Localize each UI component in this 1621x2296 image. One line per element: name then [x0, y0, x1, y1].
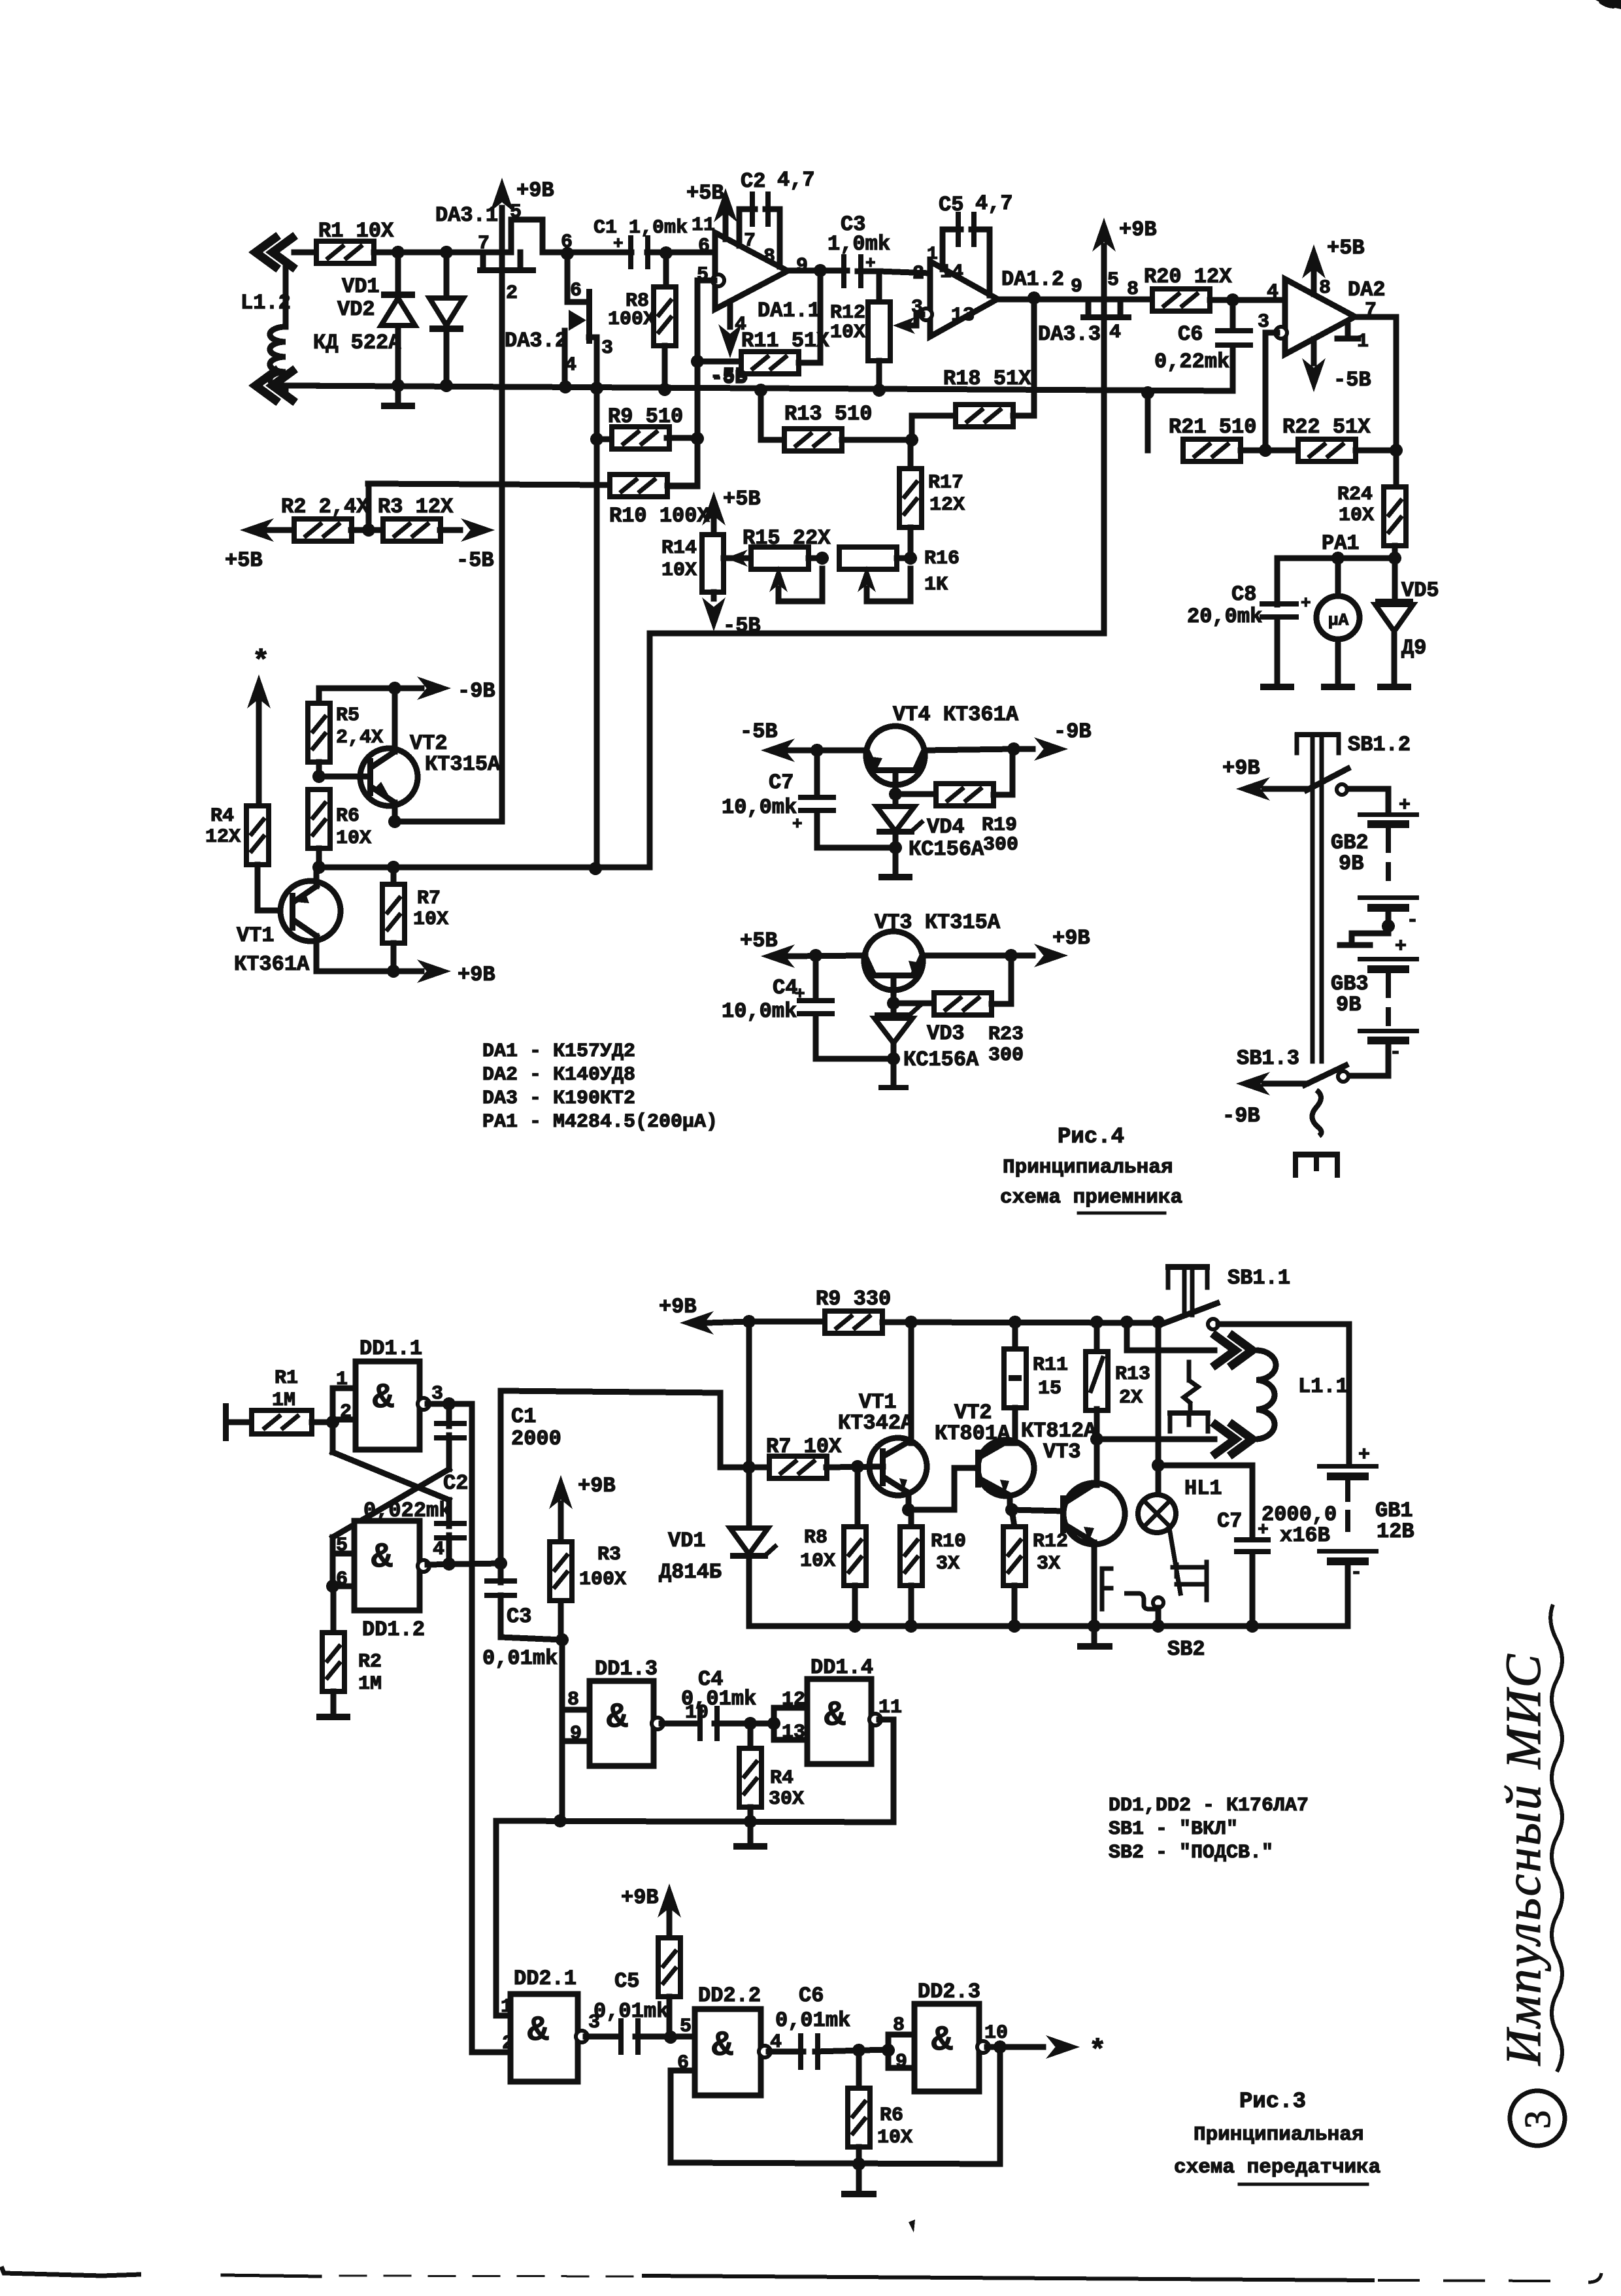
pin 11 +5B arrow (DA1.1) — [686, 181, 737, 239]
svg-text:11: 11 — [878, 1697, 902, 1719]
pin 13 (DA1.2) — [951, 305, 975, 327]
svg-text:R1: R1 — [275, 1367, 298, 1389]
svg-text:+5B: +5B — [740, 929, 778, 953]
label R6 10K — [336, 805, 371, 850]
svg-text:VT3: VT3 — [1043, 1440, 1081, 1464]
pin 7 (DA1.1) — [744, 230, 756, 252]
svg-text:9: 9 — [1071, 276, 1082, 298]
NAND gate DD1.3 — [590, 1681, 654, 1766]
svg-text:1M: 1M — [358, 1673, 382, 1695]
label R22 51K — [1282, 415, 1371, 439]
resistor R10 (receiver) — [368, 474, 697, 497]
wire DD1.2 input bracket — [326, 1537, 354, 1593]
svg-text:12B: 12B — [1377, 1520, 1414, 1544]
label R3 12K — [378, 495, 454, 519]
label L1.1 — [1298, 1374, 1348, 1399]
svg-text:+9B: +9B — [1052, 926, 1090, 950]
label VD3 KC156A — [903, 1022, 979, 1072]
label C8 20,0mk — [1187, 582, 1311, 629]
transistor VT1 (receiver) — [280, 867, 341, 971]
svg-text:3: 3 — [431, 1383, 443, 1405]
capacitor C1 (receiver) — [567, 235, 715, 269]
svg-text:300: 300 — [983, 834, 1018, 856]
pin 2 (DD2.1) — [502, 2033, 514, 2055]
ground (VD1) — [381, 386, 415, 409]
svg-text:C1: C1 — [511, 1405, 536, 1429]
svg-text:схема передатчика: схема передатчика — [1174, 2156, 1380, 2179]
svg-text:4: 4 — [433, 1539, 444, 1561]
svg-text:1K: 1K — [924, 574, 948, 596]
label SB1.2 — [1348, 733, 1411, 757]
svg-text:0,01mk: 0,01mk — [593, 1999, 669, 2023]
resistor R6 10K (transmitter) — [848, 2050, 870, 2171]
potentiometer R16 1K — [839, 547, 911, 601]
wire DD2.2 pin6 loop — [671, 2071, 1000, 2164]
zener diode VD4 — [877, 794, 922, 848]
svg-text:3X: 3X — [936, 1553, 960, 1575]
label +5B (R14) — [723, 487, 761, 511]
label R7 10K — [413, 888, 448, 931]
svg-text:КТ361А: КТ361А — [234, 952, 310, 976]
label VD1 — [668, 1529, 706, 1553]
svg-text:6: 6 — [336, 1569, 348, 1591]
pin 7 (DA2) — [1365, 299, 1377, 322]
label +9B (R5) — [621, 1886, 659, 1910]
svg-text:10X: 10X — [830, 322, 865, 344]
junction after C1 — [660, 246, 673, 259]
caption line1 (receiver) — [1003, 1156, 1173, 1179]
label 2000,0 — [1262, 1503, 1337, 1527]
arrow +9B (VT3) — [1011, 944, 1068, 967]
svg-text:-5B: -5B — [711, 367, 746, 390]
pin 9 (DA3.3) — [1071, 276, 1082, 298]
pin 5 (DD1.2) — [336, 1535, 348, 1557]
ground (R6) — [841, 2164, 877, 2197]
capacitor C5 0,01mk (transmitter) — [618, 2018, 695, 2055]
label L1.2 — [241, 291, 291, 315]
svg-text:6: 6 — [698, 235, 710, 258]
battery GB1 cell2 — [1317, 1549, 1379, 1584]
svg-text:DA3 - К190КТ2: DA3 - К190КТ2 — [482, 1088, 635, 1110]
resistor R6 (receiver) — [308, 790, 330, 867]
svg-text:R4: R4 — [210, 805, 234, 827]
svg-text:+: + — [865, 254, 876, 273]
svg-text:3X: 3X — [1037, 1553, 1060, 1575]
svg-text:&: & — [607, 1698, 628, 1738]
label R12 3K — [1033, 1531, 1068, 1575]
wire crossover diagonal 2 — [333, 1452, 449, 1526]
svg-text:+9B: +9B — [578, 1474, 616, 1498]
svg-text:15: 15 — [1038, 1378, 1061, 1400]
capacitor C8 — [1260, 558, 1299, 690]
svg-text:+: + — [795, 984, 805, 1004]
resistor R8 10K (transmitter) — [844, 1467, 866, 1626]
svg-text:R1 10X: R1 10X — [318, 219, 394, 243]
wire pin3 column to DD2.1 — [472, 1404, 510, 2052]
svg-text:R10: R10 — [931, 1531, 966, 1553]
diode VD2 — [429, 252, 463, 386]
potentiometer R15 22K — [737, 547, 822, 601]
svg-text:R6: R6 — [336, 805, 359, 827]
ground (VD4) — [878, 848, 912, 880]
svg-text:2000: 2000 — [511, 1427, 561, 1451]
svg-text:КТ801А: КТ801А — [935, 1422, 1011, 1446]
pin 14 (DA1.2) — [940, 261, 963, 284]
label GB3 9B — [1331, 972, 1369, 1017]
label VD1 VD2 KD522A — [313, 275, 401, 355]
label R2 1M (transmitter) — [358, 1651, 382, 1695]
svg-text:C4: C4 — [773, 976, 797, 1000]
svg-text:DA3.2: DA3.2 — [505, 329, 567, 353]
svg-text:-9B: -9B — [1054, 720, 1092, 744]
resistor R7 (receiver) — [382, 867, 405, 971]
svg-text:4: 4 — [1267, 281, 1278, 303]
wire DA2 output — [1355, 317, 1396, 452]
wire +9B cell bottom / arrow +9B — [316, 959, 451, 983]
junction R13/R17/R18 — [905, 433, 918, 446]
junction dots bottom line — [392, 379, 572, 393]
resistor R10 3K — [900, 1510, 922, 1626]
op-amp DA1.1 — [715, 233, 788, 309]
battery GB2 dashed link — [1386, 831, 1391, 878]
resistor R5 100K (transmitter) — [658, 1884, 681, 2037]
svg-text:1: 1 — [1357, 331, 1369, 353]
label R6 10K — [877, 2105, 912, 2149]
svg-text:R12: R12 — [1033, 1531, 1068, 1553]
resistor R3 100K (transmitter) — [549, 1475, 573, 1646]
svg-text:2,4X: 2,4X — [336, 727, 383, 749]
svg-text:R7 10X: R7 10X — [766, 1435, 842, 1459]
svg-text:-5B: -5B — [1333, 368, 1371, 392]
label C3 (transmitter) — [507, 1605, 531, 1629]
label VT3 KT315A — [875, 910, 1001, 935]
svg-text:C2: C2 — [443, 1471, 468, 1495]
svg-text:DA3.1: DA3.1 — [435, 203, 498, 227]
label C2 4,7 — [741, 168, 815, 193]
label R5 2,4K — [336, 705, 383, 749]
wire C1 bus to R7 — [501, 1391, 720, 1563]
svg-text:R15 22X: R15 22X — [743, 526, 831, 550]
svg-text:+9B: +9B — [621, 1886, 659, 1910]
battery tap GB2/GB3 — [1340, 911, 1407, 958]
pin 4 -5B arrow (DA1.1) — [710, 302, 748, 388]
svg-text:C3: C3 — [507, 1605, 531, 1629]
svg-text:VD3: VD3 — [927, 1022, 965, 1046]
svg-text:C7: C7 — [769, 771, 794, 795]
label R24 10K — [1337, 484, 1374, 527]
svg-text:10: 10 — [984, 2022, 1008, 2044]
junction VT3 base — [887, 997, 900, 1010]
svg-text:КТ315А: КТ315А — [425, 752, 501, 776]
antenna terminal (transmitter) — [223, 1403, 252, 1441]
label x16B — [1258, 1520, 1330, 1548]
svg-text:R6: R6 — [880, 2105, 903, 2127]
resistor R4 and antenna mark — [246, 646, 280, 910]
label C1 1,0mk — [593, 217, 688, 254]
svg-text:5: 5 — [680, 2016, 692, 2038]
wire VT1 emitter to VT2 base — [909, 1468, 977, 1510]
NAND gate DD1.2 — [354, 1521, 420, 1610]
resistor R22 51K — [1298, 439, 1396, 461]
svg-text:9B: 9B — [1336, 993, 1361, 1017]
resistor R9 330 and top bus — [749, 1311, 1158, 1333]
battery GB2 cell2 — [1358, 895, 1419, 932]
label R11 51K — [741, 329, 829, 353]
junction R7 bottom — [387, 965, 400, 978]
label R15 22K — [743, 526, 831, 550]
resistor R11 15 — [1004, 1322, 1026, 1443]
battery GB3 dashed link — [1386, 976, 1391, 1023]
svg-text:9: 9 — [796, 255, 808, 277]
svg-text:КТ342А: КТ342А — [838, 1411, 914, 1435]
svg-text:*: * — [1089, 2035, 1106, 2068]
transistor VT1 KT342A — [869, 1322, 927, 1510]
svg-text:+5B: +5B — [1327, 236, 1365, 260]
svg-text:DD2.1: DD2.1 — [514, 1967, 577, 1991]
junction R15/R16 — [816, 552, 829, 565]
label C4 10,0mk — [722, 976, 805, 1023]
svg-text:13: 13 — [951, 305, 975, 327]
label C6 0,22mk — [1154, 322, 1229, 374]
caption Ris.3 — [1239, 2089, 1306, 2114]
transistor VT4 — [866, 726, 1014, 794]
label GB1 12B — [1375, 1499, 1414, 1544]
page number circled 3 — [1510, 2091, 1565, 2146]
label +5B (R2) — [225, 548, 263, 573]
inductor L1.2 (antenna coil) — [256, 238, 317, 400]
svg-text:8: 8 — [567, 1689, 579, 1711]
svg-text:100X: 100X — [579, 1569, 626, 1591]
wire DA1.2 output — [997, 297, 1153, 303]
svg-text:-9B: -9B — [1222, 1104, 1260, 1128]
label VT2 KT315A — [410, 731, 501, 776]
ground mark (VD3) — [878, 1059, 909, 1090]
junction dots bottom rail — [848, 1620, 1259, 1633]
svg-text:+9B: +9B — [659, 1295, 697, 1319]
battery GB1 dashed link — [1345, 1482, 1350, 1537]
svg-text:+: + — [1258, 1520, 1269, 1540]
svg-text:1,0mk: 1,0mk — [827, 232, 890, 256]
junction R9 right — [590, 432, 704, 446]
junction R2/R3 — [362, 484, 375, 537]
label C6 (transmitter) — [799, 1984, 824, 2008]
zener diode VD1 D814B — [730, 1322, 775, 1626]
label KT812A — [1021, 1419, 1097, 1443]
label DA1.1 — [758, 299, 820, 323]
svg-text:-5B: -5B — [456, 548, 494, 573]
svg-text:+5B: +5B — [225, 548, 263, 573]
pin 6 (DD1.2) — [336, 1569, 348, 1591]
pin 1 (DD1.1) — [336, 1369, 348, 1391]
pin 8 +5B arrow (DA2) — [1302, 236, 1365, 299]
svg-text:R13 510: R13 510 — [784, 402, 872, 426]
svg-text:Рис.3: Рис.3 — [1239, 2089, 1306, 2114]
capacitor C3 0,01mk (transmitter) — [484, 1563, 562, 1640]
junction PA1 row — [1331, 552, 1401, 565]
svg-text:+: + — [1395, 936, 1407, 958]
svg-text:R17: R17 — [928, 472, 963, 494]
svg-text:VT1: VT1 — [237, 923, 275, 948]
label R18 51K — [943, 367, 1031, 391]
svg-text:+: + — [1301, 593, 1311, 613]
label -9B (SB1.3) — [1222, 1104, 1260, 1128]
svg-text:0,01mk: 0,01mk — [775, 2008, 850, 2033]
junction R21/R22/pin3 — [1259, 333, 1272, 457]
svg-text:10X: 10X — [661, 559, 697, 582]
pin 1 -5B arrow (DA2) — [1302, 325, 1371, 392]
svg-text:C8: C8 — [1231, 582, 1256, 607]
svg-text:2: 2 — [912, 263, 924, 285]
battery GB2 cell1 — [1358, 795, 1419, 828]
label -5B (R11) — [711, 367, 746, 390]
svg-text:20,0mk: 20,0mk — [1187, 605, 1262, 629]
caption line2 (transmitter) — [1174, 2156, 1380, 2184]
label +9B (transmitter) — [659, 1295, 697, 1319]
label HL1 — [1184, 1476, 1222, 1501]
analog switch DA3.3 — [1080, 299, 1131, 320]
op-amp DA2 — [1285, 279, 1355, 354]
NAND gate DD1.1 — [356, 1361, 420, 1450]
capacitor C3 (receiver) — [788, 254, 930, 303]
label R8 10K (transmitter) — [800, 1527, 835, 1572]
legend SB1 — [1109, 1818, 1238, 1840]
junction R6 bottom — [312, 861, 326, 874]
svg-text:DD2.2: DD2.2 — [698, 1984, 761, 2008]
zener diode VD5 — [1375, 558, 1413, 690]
junction dots on bus — [590, 382, 1154, 399]
label -5B (R14) — [723, 614, 761, 638]
junction VT3 right — [1005, 949, 1018, 962]
svg-text:4: 4 — [565, 354, 577, 376]
svg-text:R11 51X: R11 51X — [741, 329, 829, 353]
label VD4 KC156A — [909, 815, 984, 861]
transistor VT3 (receiver regulator) — [864, 931, 1011, 1003]
svg-text:11: 11 — [692, 214, 715, 237]
junction L1.1 bottom — [1090, 1433, 1103, 1446]
junction VT2 emitter — [1005, 1503, 1018, 1516]
svg-text:-: - — [1407, 910, 1418, 932]
junction R6 line / x911 — [589, 862, 602, 875]
capacitor C5 (receiver) — [943, 212, 990, 295]
caption line1 (transmitter) — [1194, 2123, 1363, 2146]
label C5 4,7 — [939, 191, 1013, 217]
switch SB1.2 blade / +9B arrow — [1236, 769, 1348, 801]
pin 5 (DA3.3) — [1107, 269, 1119, 291]
svg-text:1: 1 — [501, 1996, 512, 2018]
resistor R11 — [697, 271, 820, 374]
label R8 100K — [608, 290, 655, 331]
label R10 3K — [931, 1531, 966, 1575]
svg-text:1: 1 — [336, 1369, 348, 1391]
svg-text:1M: 1M — [272, 1389, 295, 1412]
svg-text:C7: C7 — [1217, 1509, 1242, 1533]
label 0,01mk (C3) — [482, 1646, 558, 1671]
wire feedback line to DD2.1 — [496, 1814, 894, 2016]
junction R20/C6 — [1226, 293, 1239, 307]
NAND gate DD2.1 — [510, 1994, 578, 2082]
label R17 12K — [928, 472, 965, 516]
junction R16 right — [904, 552, 917, 565]
contact SB1.3 — [1338, 1071, 1348, 1082]
pin 8 (DA3.3) — [1127, 278, 1139, 301]
label R7 10K (transmitter) — [766, 1435, 842, 1459]
potentiometer R14 — [702, 491, 748, 631]
svg-text:R14: R14 — [661, 537, 697, 559]
antenna mark (output) — [1089, 2035, 1106, 2068]
svg-text:0,01mk: 0,01mk — [681, 1687, 756, 1711]
svg-text:4: 4 — [770, 2031, 782, 2054]
svg-text:12: 12 — [782, 1689, 805, 1711]
wire GB1 to rail — [1345, 1565, 1351, 1626]
label DD1.2 — [362, 1618, 425, 1642]
label DA3.3 — [1038, 322, 1101, 346]
svg-text:VT4 КТ361А: VT4 КТ361А — [893, 703, 1019, 727]
wire DD2.3 output loop — [997, 2047, 1003, 2164]
resistor R5 2,4K — [308, 688, 330, 776]
switch SB1 spring — [1312, 1090, 1321, 1136]
label DA3.2 — [505, 329, 567, 353]
wire transmitter bottom rail — [749, 1623, 1348, 1629]
svg-text:DD1.1: DD1.1 — [359, 1337, 422, 1361]
svg-text:100X: 100X — [608, 308, 655, 331]
svg-text:R9 510: R9 510 — [608, 405, 683, 429]
svg-text:R18 51X: R18 51X — [943, 367, 1031, 391]
svg-text:R8: R8 — [804, 1527, 827, 1549]
op-amp DA1.2 — [930, 261, 997, 337]
switch SB1.1 button — [1158, 1264, 1217, 1325]
svg-text:12X: 12X — [205, 826, 241, 848]
svg-text:+9B: +9B — [516, 178, 554, 203]
junction VT4 base — [889, 788, 902, 801]
label R2 2,4K — [281, 495, 369, 519]
page bottom edge line — [1, 2267, 1601, 2282]
pin 1 (DA1.2) — [927, 244, 938, 265]
label DD1.3 — [595, 1657, 658, 1681]
pin 6 (DA3.2) — [570, 280, 582, 302]
svg-text:10X: 10X — [800, 1550, 835, 1572]
svg-text:&: & — [527, 2011, 549, 2051]
svg-text:VD5: VD5 — [1401, 578, 1439, 603]
capacitor C4 0,01mk (transmitter) — [697, 1706, 774, 1741]
legend DA2 type — [482, 1064, 635, 1086]
label DD1.1 — [359, 1337, 422, 1361]
junction VD3 bottom — [887, 1052, 900, 1065]
diode VD1 — [381, 252, 415, 386]
pin 6 (DA1.1) — [698, 235, 710, 258]
svg-text:&: & — [712, 2026, 733, 2066]
wire -9B cell top / arrow -9B — [319, 676, 451, 700]
svg-text:+: + — [792, 814, 803, 834]
NAND gate DD1.4 — [807, 1679, 871, 1764]
capacitor C2 0,022mk — [434, 1521, 467, 1563]
label +9B (DA3.3) — [1119, 218, 1157, 242]
transistor VT2 (receiver) — [319, 688, 418, 822]
svg-text:3: 3 — [1518, 2110, 1558, 2129]
pin 5 (DA1.1) with bubble — [697, 264, 724, 286]
capacitor C7 2000,0x16B — [1158, 1465, 1271, 1626]
svg-text:DD1.4: DD1.4 — [811, 1655, 873, 1680]
svg-text:VT3 КТ315А: VT3 КТ315А — [875, 910, 1001, 935]
svg-text:6: 6 — [570, 280, 582, 302]
wire -5B arrow to VT4 — [761, 739, 867, 762]
label 0,01mk (C6) — [775, 2008, 850, 2033]
svg-text:-5B: -5B — [740, 720, 778, 744]
switch SB1 link bracket — [1167, 1362, 1211, 1431]
pin 9 (DD2.3) — [895, 2051, 907, 2073]
label R1 1M — [272, 1367, 298, 1412]
svg-text:-: - — [1390, 1042, 1401, 1064]
junction VT1 base — [851, 1460, 864, 1473]
